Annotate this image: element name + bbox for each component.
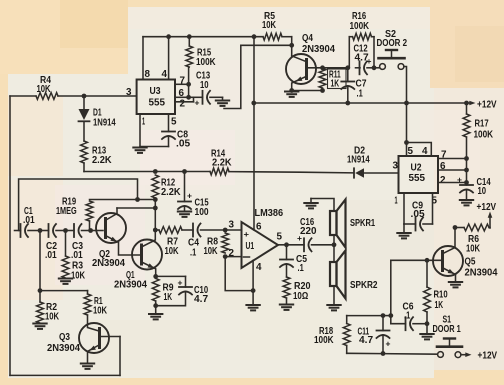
svg-text:Q5: Q5 [465, 257, 476, 268]
pin 8 U3 [145, 69, 151, 80]
ground R3 [59, 279, 72, 284]
svg-text:+: + [195, 98, 200, 108]
label R15 [196, 48, 216, 69]
svg-text:3: 3 [229, 220, 235, 231]
node D1 branch [82, 94, 87, 99]
ground C13 [216, 97, 229, 106]
svg-text:10K: 10K [165, 246, 180, 257]
wire SPKR2 bottom [333, 286, 335, 305]
wire U2 pin4 bracket [407, 143, 432, 157]
ground Q3 [81, 364, 94, 369]
svg-text:100K: 100K [350, 21, 370, 32]
label R1 [93, 296, 108, 317]
label C9 [411, 201, 425, 221]
switch S2 button [379, 50, 405, 58]
label C6 [403, 302, 414, 322]
svg-text:2N3904: 2N3904 [92, 258, 125, 269]
svg-text:10Ω: 10Ω [293, 291, 308, 302]
svg-text:10K: 10K [262, 20, 277, 31]
resistor R3 [62, 231, 69, 279]
label R8 [204, 237, 219, 258]
svg-text:SPKR2: SPKR2 [350, 280, 378, 291]
pin 3 U3 [126, 87, 132, 98]
node C11 bracket stub [388, 313, 393, 318]
wire U2 pin5 stub [432, 193, 434, 224]
svg-text:2: 2 [229, 248, 235, 259]
node R16-S2 [372, 65, 377, 70]
pin 2 U1 [229, 248, 235, 259]
wire Q5 base down [390, 260, 392, 323]
wire SPKR1 top [311, 199, 334, 212]
label R12 [161, 178, 181, 199]
svg-text:.01: .01 [23, 215, 35, 226]
label R17 [474, 119, 494, 141]
capacitor C12 [360, 61, 375, 74]
label R10 [434, 290, 448, 312]
wire S2 line down to U2 pins [404, 103, 409, 156]
wire U3 pin 8 stub [142, 37, 144, 80]
transistor Q1 2N3904 [132, 240, 162, 270]
wire to R1 [40, 291, 88, 294]
label R20 [293, 281, 311, 302]
node R2-R1 branch [38, 288, 43, 293]
pin 6 U1 [256, 222, 262, 233]
ground Q4 [285, 92, 298, 97]
svg-text:+: + [297, 233, 302, 243]
label R2 [45, 302, 60, 323]
svg-text:1: 1 [395, 196, 398, 207]
wire U2 pin1 stub [403, 193, 405, 224]
svg-text:+12V: +12V [477, 201, 497, 213]
label R18 [314, 326, 334, 346]
label Q1 [114, 270, 147, 291]
label U2 [409, 163, 426, 185]
node Q4 reset branch [289, 43, 294, 48]
label U3 [149, 86, 166, 109]
label C2 [45, 241, 57, 261]
svg-text:5: 5 [171, 117, 177, 128]
label Q2 [92, 249, 125, 269]
wire bracket stub [383, 315, 391, 317]
node R11 bottom [320, 88, 325, 93]
resistor R19 [86, 201, 93, 231]
pin 1 U2 [395, 196, 398, 207]
svg-text:10: 10 [200, 80, 209, 91]
label C3 [71, 241, 83, 261]
resistor R9 [152, 279, 159, 302]
switch S1 contacts [438, 352, 461, 358]
ground SPKR1 [304, 199, 317, 209]
capacitor C7 [341, 68, 354, 103]
svg-text:2N3904: 2N3904 [302, 44, 335, 55]
wire C1-C2 down to R2 [39, 231, 41, 291]
svg-text:1MEG: 1MEG [56, 206, 77, 217]
label C14 [457, 175, 491, 198]
label R9 [163, 283, 174, 304]
pin 6 U2 [440, 161, 446, 172]
node C15 top [182, 169, 187, 174]
svg-text:+: + [367, 56, 372, 66]
label D1 [93, 108, 116, 129]
op-amp U3 555 box [137, 80, 175, 115]
svg-text:2: 2 [440, 175, 446, 186]
svg-text:4.7: 4.7 [359, 335, 373, 346]
label R11 box [328, 69, 347, 89]
op-amp U1 LM386 triangle [242, 222, 279, 268]
label C4 [188, 238, 199, 259]
svg-text:2.2K: 2.2K [161, 187, 181, 198]
ground U1 pin4 [246, 305, 259, 310]
svg-text:3: 3 [393, 161, 399, 172]
svg-text:100K: 100K [196, 57, 216, 68]
wire Q5 emitter [443, 268, 456, 282]
wire Q4 base line [308, 67, 360, 69]
wire vertical B (+12V feed down to U1 pin 6) [253, 37, 255, 230]
svg-text:+12V: +12V [477, 99, 497, 111]
svg-text:2: 2 [180, 99, 186, 110]
wire to U1 pin3 [225, 229, 241, 231]
pin 2 U3 [180, 99, 186, 110]
wire Q5 base [391, 259, 443, 261]
svg-text:10K: 10K [93, 306, 108, 317]
svg-text:+: + [244, 230, 250, 239]
ground U3 pin1 [133, 148, 146, 153]
label C5 [296, 254, 307, 274]
svg-text:100: 100 [195, 207, 209, 218]
svg-text:4.7: 4.7 [194, 294, 208, 305]
svg-text:10K: 10K [71, 271, 86, 282]
resistor R16 [349, 33, 374, 40]
wire between speakers [333, 235, 335, 262]
pin 7 U3 [180, 76, 186, 87]
transistor Q3 2N3904 [79, 323, 109, 353]
svg-text:DOOR 2: DOOR 2 [377, 38, 408, 49]
svg-text:100K: 100K [474, 130, 494, 141]
resistor R12 [152, 175, 159, 198]
label C15 [187, 191, 209, 219]
pin 7 U2 [441, 150, 447, 161]
svg-text:Q3: Q3 [59, 332, 70, 343]
label Q3 [47, 332, 80, 354]
resistor R2 [37, 291, 44, 323]
label C7 [356, 79, 367, 100]
wire R5 to Q4 collector [291, 37, 293, 56]
pin 3 U1 [229, 220, 235, 231]
capacitor C11 [377, 316, 390, 354]
node R10 top [425, 258, 430, 263]
wire U3 pin7 to R15 bottom [175, 67, 191, 97]
op-amp minus input [244, 256, 250, 258]
resistor R1 [84, 294, 91, 315]
wire U2 pin2 [438, 180, 469, 185]
op-amp U2 555 box [399, 156, 439, 193]
svg-text:.1: .1 [357, 89, 363, 100]
wire U3 pin2 stub [175, 97, 194, 102]
node R8 top [223, 228, 228, 233]
label C13 [195, 71, 211, 108]
wire R12 bottom to Q1 collector [153, 198, 158, 230]
capacitor C2 [40, 224, 66, 237]
label R13 [92, 146, 112, 167]
wire Q3 emitter [88, 345, 100, 363]
svg-text:+12V: +12V [478, 350, 498, 362]
capacitor C4 [182, 224, 225, 237]
svg-text:+: + [187, 191, 192, 201]
power +12V bottom right [461, 350, 497, 362]
svg-text:R10: R10 [434, 290, 448, 301]
wire Q1 collector [142, 230, 156, 247]
svg-text:4: 4 [256, 262, 262, 273]
label C12 [354, 44, 372, 67]
wire Q4 emitter [292, 77, 306, 91]
svg-text:220: 220 [300, 226, 317, 237]
node C5 branch [284, 242, 289, 247]
resistor R14 [210, 168, 229, 175]
svg-text:.05: .05 [411, 209, 425, 220]
svg-text:.1: .1 [298, 263, 304, 274]
svg-text:1: 1 [142, 117, 145, 128]
node Q4 emitter ground [289, 88, 294, 93]
wire reset L-path (Q4 base to ground) [224, 45, 292, 108]
label C11 [358, 327, 391, 349]
resistor R5 [263, 33, 282, 40]
label C10 [178, 278, 209, 306]
svg-text:1K: 1K [164, 292, 173, 303]
diode D1 1N914 [79, 96, 90, 141]
label C1 [23, 206, 35, 226]
pin 4 U3 [162, 69, 168, 80]
wire R16 right leg [373, 37, 375, 68]
svg-text:555: 555 [149, 98, 166, 109]
wire S2 to rail [404, 67, 407, 104]
label R16 [350, 11, 370, 32]
svg-text:10K: 10K [204, 246, 219, 257]
svg-text:1K: 1K [435, 300, 444, 311]
resistor R6 [455, 224, 490, 231]
wire +12V rail [251, 101, 468, 106]
transistor Q2 2N3904 [96, 213, 126, 243]
svg-text:4: 4 [422, 146, 428, 157]
label R4 [37, 75, 52, 95]
capacitor C3 [66, 224, 91, 237]
wire R13 to mid rail [83, 163, 85, 172]
label C8 [176, 130, 190, 150]
svg-text:2.2K: 2.2K [92, 155, 112, 166]
capacitor C16 [304, 238, 312, 251]
wire U3 pin1 stub [139, 114, 141, 147]
svg-text:10K: 10K [37, 84, 52, 95]
diode D2 1N914 [354, 168, 399, 177]
wire R7 lead [155, 229, 159, 231]
pin 5 U2 bottom [432, 196, 438, 207]
resistor R13 [81, 141, 88, 163]
ground R9 [149, 301, 162, 319]
wire Q2 collector link [117, 207, 155, 209]
label SPKR2 [350, 280, 378, 291]
node C1-C2 [38, 228, 43, 233]
wire U2 pin7 [438, 156, 469, 161]
label R5 [262, 11, 277, 31]
svg-text:R17: R17 [475, 119, 489, 130]
wire U3 pin3 output [10, 95, 137, 97]
label D2 [347, 146, 370, 166]
wire Q4 collector diag [292, 56, 306, 62]
node speaker junction [332, 242, 337, 247]
transistor Q5 2N3904 [433, 246, 463, 276]
svg-text:1K: 1K [331, 79, 340, 90]
svg-text:2N3904: 2N3904 [465, 268, 498, 279]
svg-text:2N3904: 2N3904 [114, 280, 147, 291]
power +12V right mid [477, 201, 497, 228]
capacitor C13 [189, 91, 223, 104]
svg-text:2.2K: 2.2K [212, 158, 232, 169]
node R9 bottom [153, 303, 158, 308]
svg-text:8: 8 [145, 69, 151, 80]
node R8 bottom [223, 254, 228, 259]
pin 5 U3 [171, 117, 177, 128]
svg-text:.05: .05 [176, 139, 190, 150]
svg-text:U1: U1 [246, 241, 255, 252]
wire R11 bottom to Q4 emitter [292, 90, 323, 92]
capacitor C5 [280, 245, 293, 277]
wire Q2 base [91, 230, 103, 232]
ground C15 [178, 212, 191, 217]
resistor R10 [424, 260, 431, 323]
svg-text:DOOR 1: DOOR 1 [433, 324, 461, 335]
svg-text:10K: 10K [45, 312, 60, 323]
node top rail to vertical B [252, 34, 257, 39]
label R3 [71, 261, 86, 282]
speaker SPKR2 [330, 251, 346, 299]
label SPKR1 [350, 218, 375, 229]
node R12 top [153, 169, 158, 174]
svg-text:SPKR1: SPKR1 [350, 218, 375, 229]
op-amp plus input [244, 230, 250, 239]
pin 5 U1 [277, 232, 283, 243]
svg-text:100K: 100K [314, 335, 334, 346]
svg-text:+: + [457, 175, 462, 185]
node C7 top [345, 65, 350, 70]
svg-text:10K: 10K [466, 244, 481, 255]
pin 2 U2 [440, 175, 446, 186]
wire R6 to Q5 collector [453, 225, 458, 247]
wire R8 bottom L to pin4 ground [225, 257, 253, 291]
svg-text:4: 4 [162, 69, 168, 80]
resistor R17 [463, 103, 470, 185]
ground R10 [420, 324, 433, 340]
wire R19 node line [90, 197, 158, 202]
pin 3 U2 [393, 161, 399, 172]
node C2-C3 [63, 228, 68, 233]
ground R2 [33, 324, 46, 329]
switch S2 contacts [380, 64, 404, 70]
ground Q5 [449, 282, 462, 287]
svg-text:.01: .01 [45, 250, 57, 261]
svg-text:5: 5 [277, 232, 283, 243]
svg-text:U2: U2 [411, 163, 422, 174]
resistor R11 [319, 69, 326, 89]
power +12V top right [467, 99, 497, 111]
pin 6 U3 [179, 88, 185, 99]
ground C9 side [397, 224, 410, 238]
svg-text:.1: .1 [404, 311, 410, 322]
capacitor C9 [404, 218, 433, 231]
resistor R20 [283, 277, 290, 298]
label S2 [377, 29, 408, 49]
label R7 [165, 237, 180, 258]
speaker SPKR1 [330, 200, 346, 248]
label Q5 [465, 257, 498, 279]
wire to S2 [374, 67, 380, 69]
svg-text:10: 10 [478, 186, 487, 197]
svg-text:1N914: 1N914 [347, 155, 370, 166]
wire U1 pin4 to ground [251, 261, 256, 305]
capacitor C10 [179, 287, 192, 295]
wire U3 pin6 [175, 95, 191, 100]
wire feedback bottom [10, 374, 120, 376]
wire U1 pin2 [225, 256, 241, 258]
svg-text:+: + [386, 339, 391, 349]
svg-text:Q4: Q4 [302, 33, 313, 44]
wire feedback to Q3 base [101, 337, 120, 376]
label R19 [56, 197, 77, 218]
capacitor C8 [140, 114, 175, 147]
resistor R15 [186, 34, 193, 67]
label R11 [329, 70, 341, 90]
svg-text:5: 5 [408, 146, 414, 157]
resistor R4 [36, 93, 58, 100]
ground SPKR2 [327, 305, 340, 310]
svg-text:.1: .1 [190, 248, 196, 259]
capacitor C15 [178, 172, 191, 212]
ground C14 [460, 200, 473, 205]
capacitor C14 [460, 185, 473, 200]
wire feedback left edge [9, 96, 11, 375]
wire Q2 emitter [106, 236, 142, 256]
label U1 [246, 241, 255, 252]
svg-text:2N3904: 2N3904 [47, 343, 80, 354]
wire R18-C11 top [347, 313, 386, 323]
wire input loop top [19, 179, 138, 231]
svg-text:+: + [178, 278, 183, 288]
svg-text:6: 6 [256, 222, 262, 233]
svg-text:555: 555 [409, 173, 426, 184]
wire Q2 collector [106, 208, 117, 220]
capacitor C6 [391, 317, 427, 330]
node R9 top [153, 274, 158, 279]
resistor R7 [159, 227, 182, 234]
node R10 bottom [425, 321, 430, 326]
svg-text:1N914: 1N914 [93, 118, 116, 129]
node Q2 base [88, 228, 93, 233]
wire R18-C11 bottom [347, 346, 438, 356]
pin 4 U1 [256, 262, 262, 273]
pin 1 U3 [142, 117, 145, 128]
resistor R8 [222, 233, 229, 253]
svg-text:LM386: LM386 [255, 207, 284, 219]
transistor Q4 2N3904 [286, 54, 316, 84]
label S1 [433, 315, 461, 336]
wire R1 to Q3 collector [87, 315, 89, 325]
switch S1 button [437, 339, 462, 347]
wire R16 left leg [348, 37, 350, 68]
wire U2 pin6 [438, 168, 469, 173]
label R6 [466, 234, 481, 255]
svg-text:U3: U3 [150, 86, 161, 97]
wire U1 output [278, 244, 334, 246]
label Q4 [302, 33, 335, 55]
wire Q3 collector [88, 325, 100, 332]
